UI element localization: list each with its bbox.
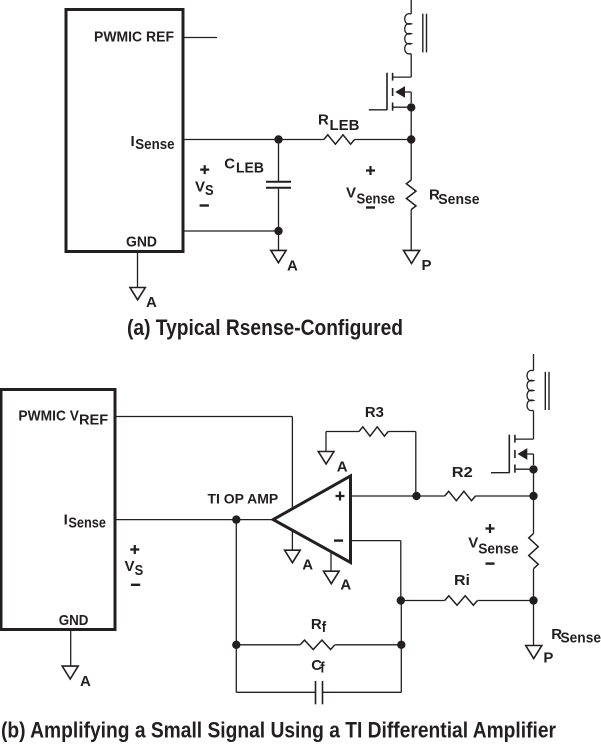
node junction dot Rf right [397, 641, 405, 649]
inductor L2 (circuit b) with core [527, 354, 549, 439]
wire op-amp plus input [351, 495, 417, 497]
label VS plus [200, 165, 209, 174]
capacitor Cf [236, 681, 401, 704]
node junction dot at CLEB top [274, 135, 282, 143]
resistor Ri with leads [401, 596, 534, 605]
svg-text:V: V [125, 558, 135, 575]
svg-text:A: A [146, 294, 157, 311]
wire GND pin down [137, 253, 139, 288]
svg-text:LEB: LEB [330, 117, 360, 134]
svg-text:Sense: Sense [135, 136, 174, 153]
svg-text:S: S [205, 182, 214, 199]
label VSense (a) [346, 184, 395, 207]
pin label GND (b) [59, 612, 89, 629]
svg-text:S: S [135, 562, 144, 579]
label VS minus (b) [131, 584, 140, 586]
ground A (R3 left) [318, 452, 347, 476]
pin label ISense (b) [64, 512, 106, 532]
svg-text:C: C [224, 155, 235, 172]
ground A (below PWMIC GND) [130, 288, 157, 311]
svg-text:TI OP AMP: TI OP AMP [208, 491, 279, 506]
svg-text:V: V [195, 179, 205, 196]
resistor R3 with leads [326, 427, 416, 496]
node junction dot at CLEB bottom [274, 227, 282, 235]
pin label PWMIC REF [94, 29, 174, 46]
resistor Rf label [311, 616, 327, 636]
ground A (below CLEB) [271, 250, 298, 274]
op-amp U3 triangle [273, 476, 350, 563]
svg-text:I: I [131, 133, 135, 150]
svg-text:A: A [287, 258, 298, 275]
wire RSense node to ground P [533, 601, 535, 646]
wire CLEB bottom to ground [278, 231, 280, 250]
resistor Rf with leads [236, 640, 401, 649]
node junction dot op-amp output [232, 515, 240, 523]
label VSense minus (a) [366, 206, 375, 208]
label TI OP AMP [208, 491, 279, 506]
svg-text:A: A [337, 458, 348, 475]
op-amp minus input sign [334, 539, 343, 541]
op-amp plus input sign [336, 492, 345, 501]
capacitor Cf label [311, 657, 325, 677]
svg-text:R2: R2 [452, 464, 473, 481]
svg-text:REF: REF [79, 412, 108, 429]
svg-text:I: I [64, 512, 68, 529]
resistor R2 with leads [417, 491, 534, 500]
svg-text:P: P [543, 649, 553, 666]
label VSense plus (b) [486, 524, 495, 533]
node junction dot R2 right [529, 492, 537, 500]
wire GND (b) down [70, 631, 72, 666]
svg-text:PWMIC V: PWMIC V [18, 408, 79, 425]
node junction dot Ri left [397, 596, 405, 604]
svg-text:V: V [346, 184, 356, 201]
resistor RSense (b) [529, 496, 539, 601]
wire PWMIC REF stub [185, 37, 218, 39]
svg-text:A: A [340, 577, 351, 594]
PWMIC box U1 (circuit a) [66, 10, 183, 252]
node junction dot MOSFET source (b) [529, 465, 537, 496]
PWMIC box U2 (circuit b) [1, 390, 115, 630]
transistor Q1 MOSFET (circuit a) [369, 73, 411, 111]
svg-text:R3: R3 [365, 404, 384, 421]
svg-text:Ri: Ri [454, 572, 470, 589]
label VSense minus (b) [486, 562, 495, 564]
node junction dot Rf left [232, 641, 240, 649]
label VSense plus (a) [366, 166, 375, 175]
svg-text:Sense: Sense [357, 191, 396, 208]
resistor RLEB label [318, 111, 360, 134]
svg-text:P: P [422, 257, 432, 274]
wire ISense to op-amp output [117, 519, 275, 521]
svg-text:Sense: Sense [478, 540, 518, 557]
svg-text:LEB: LEB [236, 159, 264, 176]
svg-text:(b) Amplifying a Small Signal: (b) Amplifying a Small Signal Using a TI… [1, 718, 556, 743]
svg-text:A: A [80, 673, 91, 690]
transistor Q2 MOSFET (circuit b) [491, 435, 534, 473]
node junction dot plus input [412, 492, 420, 500]
resistor R3 label [365, 404, 384, 421]
svg-text:Sense: Sense [561, 629, 601, 646]
svg-text:(a) Typical Rsense-Configured: (a) Typical Rsense-Configured [127, 315, 403, 340]
svg-text:R: R [318, 111, 329, 128]
caption (b) [1, 718, 556, 743]
resistor RSense label (b) [551, 626, 601, 647]
resistor RSense (a) [406, 140, 416, 251]
wire op-amp bottom stub to ground [330, 551, 332, 571]
ground P (below RSense a) [404, 250, 432, 273]
pin label GND [126, 234, 157, 251]
svg-text:PWMIC REF: PWMIC REF [94, 29, 174, 46]
label VS (b) [125, 558, 144, 579]
node junction dot RLEB right [407, 135, 415, 143]
svg-text:R: R [311, 616, 322, 633]
wire minus node down right side [400, 601, 402, 693]
ground P (b) [526, 646, 554, 667]
node junction dot MOSFET source (a) [407, 103, 415, 139]
resistor Ri label [454, 572, 470, 589]
wire output node down left side [235, 520, 237, 693]
label VS minus [200, 204, 209, 206]
inductor L1 (circuit a) with core [405, 0, 427, 77]
svg-text:V: V [468, 535, 478, 552]
svg-text:GND: GND [59, 612, 89, 629]
caption (a) [127, 315, 403, 340]
capacitor CLEB label [224, 155, 264, 176]
resistor RSense label (a) [429, 187, 480, 209]
wire op-amp minus input [351, 541, 401, 601]
resistor R2 label [452, 464, 473, 481]
resistor RLEB [324, 135, 411, 144]
label VSense (b) [468, 535, 518, 558]
node junction dot Ri right [529, 596, 537, 604]
wire GND pin to CLEB bottom [185, 230, 279, 232]
wire VREF to ground A [117, 417, 293, 551]
ground A (op-amp bottom) [324, 571, 352, 593]
pin label PWMIC VREF [18, 408, 108, 429]
label VS [195, 179, 214, 200]
label VS plus (b) [130, 545, 139, 554]
ground A (below PWMIC GND b) [62, 666, 91, 690]
svg-text:GND: GND [126, 234, 157, 251]
svg-text:A: A [302, 557, 313, 574]
svg-text:Sense: Sense [68, 515, 106, 532]
svg-text:Sense: Sense [438, 191, 479, 208]
pin label ISense [131, 133, 175, 153]
ground A (VREF line, left below op-amp) [285, 550, 314, 573]
capacitor CLEB [266, 144, 291, 231]
wire ISense to RLEB node [185, 139, 324, 141]
